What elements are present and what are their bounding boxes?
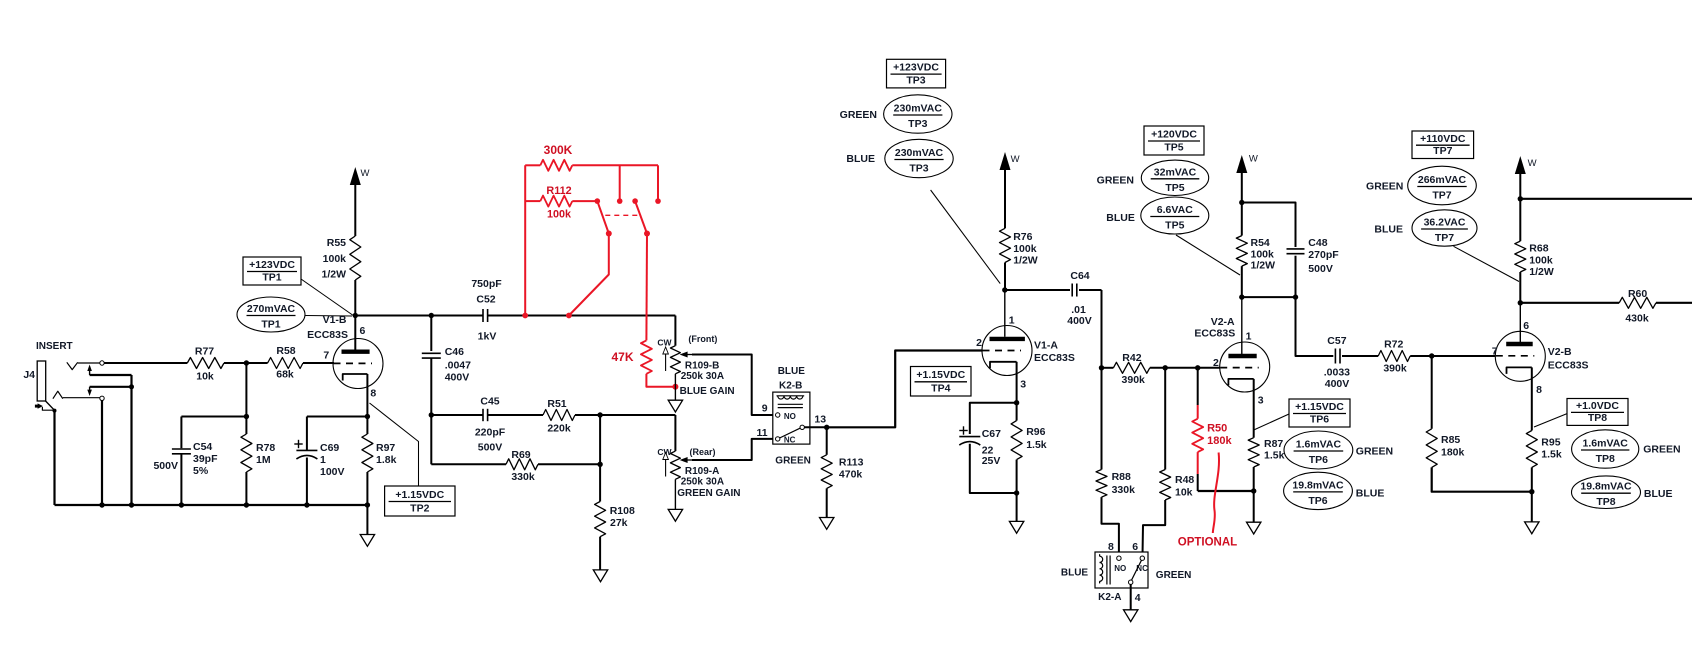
wire C46 down (430, 316, 432, 352)
svg-text:K2-A: K2-A (1098, 592, 1121, 603)
wire jack ring down (101, 400, 103, 505)
svg-text:W: W (1249, 154, 1258, 165)
svg-text:BLUE: BLUE (846, 153, 875, 165)
wire C57 to R72 (1342, 355, 1378, 357)
wire C64 to R42 node (1079, 290, 1102, 368)
wire R48 top (1164, 368, 1166, 470)
svg-text:C52: C52 (476, 294, 495, 306)
wire R72 to V2-B grid (1410, 355, 1495, 357)
svg-text:W: W (361, 168, 370, 179)
svg-text:V2-B: V2-B (1548, 346, 1572, 358)
capacitor C54 (153, 441, 218, 477)
svg-text:220k: 220k (547, 422, 571, 434)
test point ellipse TP8 BLUE (1572, 476, 1673, 509)
K2-A switch arm (1132, 560, 1142, 580)
svg-text:5%: 5% (193, 465, 209, 477)
V2-A pin 3 (1254, 379, 1264, 438)
svg-text:K2-B: K2-B (779, 380, 802, 391)
node C48/R54 junction (1239, 294, 1298, 299)
svg-text:68k: 68k (276, 369, 294, 381)
capacitor C64 (1067, 270, 1092, 327)
ground bus wire (55, 504, 368, 506)
svg-text:V2-A: V2-A (1211, 316, 1235, 328)
svg-text:TP7: TP7 (1435, 232, 1454, 244)
resistor R113 (821, 455, 863, 489)
resistor R76 (1000, 228, 1038, 266)
connector J4 (INSERT jack) (23, 341, 72, 401)
wire R95 bottom (1531, 467, 1533, 522)
V1-A cathode (990, 362, 1017, 369)
svg-text:C64: C64 (1070, 270, 1089, 282)
wire K2-B common out (804, 426, 826, 428)
svg-text:ECC83S: ECC83S (1194, 328, 1235, 340)
wire supply rail right top (1520, 198, 1692, 200)
svg-text:+110VDC: +110VDC (1420, 133, 1466, 145)
svg-text:7: 7 (1492, 346, 1498, 358)
K2-B NC contact (776, 437, 780, 441)
potentiometer R109-B (657, 334, 734, 397)
node C45 row left (429, 412, 434, 417)
svg-text:9: 9 (762, 402, 768, 414)
wire K2-A pin4 (1130, 584, 1132, 609)
test point box TP8 (1567, 399, 1628, 426)
svg-text:6.6VAC: 6.6VAC (1157, 204, 1193, 216)
svg-text:1/2W: 1/2W (1251, 260, 1276, 272)
test point ellipse TP7 GREEN (1366, 166, 1476, 205)
wire C48 branch (1242, 203, 1296, 248)
node R77/R58 junction (244, 360, 249, 365)
svg-text:1/2W: 1/2W (321, 269, 346, 281)
resistor R51 (543, 398, 575, 434)
resistor R60 (1619, 288, 1656, 324)
V2-B pin 7 label (1492, 346, 1498, 358)
wire jack sleeve down (53, 409, 57, 505)
test point box TP6 (1289, 399, 1350, 427)
node switch throw D (655, 198, 661, 204)
wire K2-B to V1-A grid (827, 351, 982, 428)
wire V2-A plate node to C57 (1296, 297, 1334, 356)
resistor R68 (1515, 241, 1554, 278)
svg-text:270mVAC: 270mVAC (247, 303, 296, 315)
resistor R87 (1248, 438, 1284, 467)
wire to C45 (431, 414, 482, 416)
wire R109-A wiper to K2-B pin11 (692, 439, 775, 460)
svg-text:390k: 390k (1122, 374, 1146, 386)
svg-text:13: 13 (814, 414, 826, 426)
svg-text:300K: 300K (544, 143, 573, 157)
svg-text:R58: R58 (276, 345, 295, 357)
svg-text:1.5k: 1.5k (1264, 450, 1285, 462)
svg-text:270pF: 270pF (1308, 249, 1339, 261)
wire R113 top (826, 427, 828, 455)
red wire 47K to pot bottom (646, 374, 675, 387)
svg-text:2: 2 (976, 337, 982, 349)
svg-text:TP5: TP5 (1165, 220, 1184, 232)
svg-text:32mVAC: 32mVAC (1154, 166, 1197, 178)
jack sleeve contact (35, 401, 55, 410)
resistor R72 (1378, 338, 1410, 374)
wire R96 bottom (1016, 460, 1018, 522)
svg-text:500V: 500V (153, 460, 178, 472)
svg-text:+123VDC: +123VDC (249, 259, 295, 271)
V1-B pin 8 label (370, 388, 376, 400)
resistor 300K (red) (525, 143, 658, 171)
resistor R54 (1236, 203, 1275, 272)
svg-text:230mVAC: 230mVAC (895, 147, 944, 159)
label OPTIONAL (red) (1178, 537, 1237, 549)
resistor R58 (268, 345, 303, 381)
resistor R77 (187, 346, 224, 383)
svg-text:R77: R77 (195, 346, 214, 358)
svg-text:230mVAC: 230mVAC (894, 103, 943, 115)
capacitor C45 (475, 395, 506, 453)
svg-text:V1-A: V1-A (1034, 340, 1058, 352)
svg-text:(Rear): (Rear) (690, 447, 716, 457)
V2-B cathode (1507, 367, 1532, 374)
node R96/C67 bottom (1014, 490, 1019, 495)
svg-text:.01: .01 (1071, 304, 1086, 316)
svg-text:+1.15VDC: +1.15VDC (395, 489, 444, 501)
svg-text:3: 3 (1020, 379, 1026, 391)
svg-text:8: 8 (370, 388, 376, 400)
capacitor C52 (471, 278, 502, 343)
tube V1-A ECC83S (982, 326, 1075, 376)
R109-A wiper (680, 457, 692, 463)
svg-text:R48: R48 (1175, 474, 1194, 486)
wire plate node to R60 (1520, 302, 1619, 304)
switch arm 1 (red) (597, 201, 609, 233)
svg-text:NO: NO (784, 412, 796, 421)
wire V1-B plate run (355, 315, 482, 317)
test point ellipse TP6 BLUE (1284, 472, 1385, 509)
svg-text:C45: C45 (480, 395, 499, 407)
test point box TP5 (1144, 126, 1204, 155)
svg-text:250k 30A: 250k 30A (681, 477, 724, 488)
svg-text:V1-B: V1-B (323, 314, 347, 326)
node switch pivot A (595, 198, 601, 204)
V1-B pin 6 (355, 316, 365, 350)
svg-text:GREEN GAIN: GREEN GAIN (677, 488, 740, 499)
svg-text:R87: R87 (1264, 438, 1283, 450)
svg-text:100k: 100k (323, 253, 347, 265)
node C46 junction (429, 313, 434, 318)
node R95/R85 junction (1529, 489, 1534, 494)
resistor R78 (241, 434, 276, 472)
svg-text:GREEN: GREEN (1097, 175, 1134, 187)
node R85 tap (1429, 353, 1434, 358)
resistor R55 (321, 236, 360, 281)
leader TP1 box (301, 279, 354, 316)
svg-text:1.5k: 1.5k (1026, 439, 1047, 451)
jack ring terminal circle (100, 396, 104, 400)
wire C48 bottom (1295, 256, 1297, 297)
svg-text:TP2: TP2 (410, 503, 429, 515)
R109-A CW arrow (663, 453, 669, 477)
svg-text:TP4: TP4 (931, 383, 950, 395)
wire R113 to ground (826, 488, 828, 517)
red wire left vertical (524, 165, 526, 315)
wire jack tip-switch bus (90, 375, 132, 387)
wire R108 top (599, 415, 601, 502)
K2-B NO contact (776, 413, 780, 417)
wire R48 to K2-A pin6 (1143, 500, 1166, 556)
wire R69 branch down (431, 415, 506, 464)
power arrow W (V2-B) (1515, 156, 1537, 241)
tube V2-B ECC83S (1495, 331, 1588, 381)
svg-text:ECC83S: ECC83S (1034, 352, 1075, 364)
leader TP8 (1534, 414, 1567, 427)
svg-text:R109-B: R109-B (685, 361, 719, 372)
svg-text:R55: R55 (327, 237, 346, 249)
wire R60 right (1656, 302, 1692, 304)
wire R85 top (1431, 356, 1433, 429)
power arrow W (V1-A) (1000, 152, 1020, 228)
V2-B pin 6 (1520, 303, 1529, 342)
svg-text:400V: 400V (1325, 378, 1350, 390)
svg-text:BLUE: BLUE (1061, 568, 1089, 579)
test point ellipse TP7 BLUE (1374, 210, 1477, 246)
svg-text:100k: 100k (1529, 255, 1553, 267)
node switch pivot C (632, 198, 638, 204)
wire R76 to node (1004, 263, 1006, 291)
wire R77-R58 (224, 362, 268, 364)
wire R109-B bottom (674, 374, 676, 400)
wire C45 to R51 (488, 414, 543, 416)
wire R108 to ground (599, 537, 601, 570)
relay K2-B (756, 366, 826, 466)
leader TP3 (931, 190, 1001, 284)
wire C46 to C45 row (430, 358, 432, 415)
wire C67 to bottom (970, 444, 1017, 493)
node C54 wire junction (244, 414, 249, 419)
V1-B cathode (343, 374, 368, 381)
svg-text:INSERT: INSERT (36, 341, 73, 352)
svg-text:R88: R88 (1112, 471, 1131, 483)
node switch arm1 end (606, 231, 612, 237)
wire R50 top (black) (1197, 368, 1199, 405)
svg-text:R96: R96 (1026, 426, 1045, 438)
node red tap on plate wire (522, 313, 528, 319)
svg-text:GREEN: GREEN (1643, 443, 1680, 455)
svg-text:C69: C69 (320, 442, 339, 454)
capacitor C69 (294, 440, 344, 478)
svg-text:R50: R50 (1207, 423, 1227, 435)
node R69/R108 (597, 462, 602, 467)
svg-text:10k: 10k (1175, 487, 1193, 499)
K2-A NO contact (1117, 556, 1121, 560)
svg-text:19.8mVAC: 19.8mVAC (1292, 479, 1344, 491)
test point ellipse TP5 GREEN (1097, 160, 1209, 195)
K2-A common contact (1129, 580, 1133, 584)
node V2-B supply tap (1518, 196, 1523, 201)
svg-text:100V: 100V (320, 466, 345, 478)
svg-text:1.6mVAC: 1.6mVAC (1296, 439, 1342, 451)
node R42 left (1099, 365, 1104, 370)
svg-text:ECC83S: ECC83S (307, 329, 348, 341)
wire R109-A top (674, 415, 676, 451)
wire R69 to junction (538, 463, 600, 465)
svg-text:500V: 500V (1308, 263, 1333, 275)
resistor R48 (1160, 470, 1195, 501)
red wire arm1 to plate wire (569, 234, 609, 316)
test point ellipse TP6 GREEN (1284, 431, 1393, 469)
node switch throw B (617, 198, 623, 204)
svg-text:R109-A: R109-A (685, 466, 719, 477)
svg-text:8: 8 (1536, 384, 1542, 396)
K2-B switch arm (780, 428, 801, 438)
svg-text:7: 7 (323, 350, 329, 362)
red wire arm2 down (645, 234, 648, 341)
svg-text:750pF: 750pF (471, 278, 502, 290)
svg-text:TP5: TP5 (1164, 142, 1183, 154)
svg-text:8: 8 (1108, 541, 1114, 553)
node cathode junction (365, 414, 370, 419)
svg-text:W: W (1011, 154, 1020, 165)
test point ellipse TP5 BLUE (1106, 197, 1208, 234)
svg-text:TP6: TP6 (1308, 495, 1327, 507)
potentiometer R109-A (657, 447, 740, 499)
wire R78 to bus (245, 472, 247, 505)
capacitor C67 (959, 426, 1001, 467)
wire R88 top (1101, 368, 1103, 470)
svg-text:19.8mVAC: 19.8mVAC (1580, 481, 1632, 493)
wire C54 to R78 (181, 417, 246, 449)
wire C69 top (307, 417, 368, 451)
wire R85 bottom (1432, 467, 1532, 491)
svg-text:C48: C48 (1308, 237, 1327, 249)
svg-text:+1.15VDC: +1.15VDC (916, 369, 965, 381)
svg-text:180k: 180k (1441, 447, 1465, 459)
resistor R88 (1096, 470, 1135, 498)
svg-text:10k: 10k (196, 371, 214, 383)
power arrow W (V1-B) (350, 167, 370, 236)
svg-text:BLUE: BLUE (1106, 212, 1135, 224)
svg-text:+1.0VDC: +1.0VDC (1576, 400, 1619, 412)
wire R88 to K2-A pin8 (1102, 497, 1119, 556)
svg-text:C67: C67 (982, 428, 1001, 440)
node red at pot bottom (672, 384, 678, 390)
svg-text:NO: NO (1114, 564, 1126, 573)
svg-text:W: W (1528, 158, 1537, 169)
wire node to C64 (1005, 289, 1070, 291)
wire R42 to V2-A grid (1150, 367, 1220, 369)
leader TP2 (370, 403, 419, 486)
node R54 top (1239, 200, 1244, 205)
resistor R95 (1526, 431, 1562, 468)
V1-A pin 3 (1017, 362, 1027, 403)
svg-text:100k: 100k (547, 209, 572, 221)
jack tip terminal circle (100, 361, 104, 365)
test point ellipse TP8 GREEN (1572, 430, 1681, 468)
svg-text:R69: R69 (511, 449, 530, 461)
ground below R87 (1247, 522, 1261, 534)
svg-text:6: 6 (1132, 541, 1138, 553)
svg-text:TP8: TP8 (1596, 496, 1615, 508)
ground below V1-B (360, 535, 374, 547)
svg-text:R76: R76 (1013, 231, 1032, 243)
test point box TP3 (887, 59, 946, 88)
node jack switch junction (129, 384, 134, 389)
svg-text:R72: R72 (1384, 338, 1403, 350)
svg-text:250k 30A: 250k 30A (681, 371, 724, 382)
wire C54 to bus (180, 454, 182, 505)
svg-text:GREEN: GREEN (840, 109, 877, 121)
node bus junctions (99, 502, 370, 507)
svg-text:39pF: 39pF (193, 453, 218, 465)
ground below R109-B (668, 400, 682, 412)
svg-text:TP7: TP7 (1432, 190, 1451, 202)
svg-text:TP1: TP1 (262, 272, 281, 284)
wire R109-B wiper to K2-B pin9 (692, 355, 775, 416)
test point box TP7 (1412, 131, 1474, 159)
svg-text:100k: 100k (1013, 243, 1037, 255)
power arrow W (V2-A) (1236, 154, 1258, 203)
svg-text:CW: CW (657, 337, 672, 347)
resistor R108 (595, 502, 635, 537)
svg-text:GREEN: GREEN (1156, 570, 1192, 581)
svg-text:1kV: 1kV (478, 331, 497, 343)
V1-A pin 2 label (976, 337, 982, 349)
svg-text:R108: R108 (610, 505, 635, 517)
svg-text:180k: 180k (1207, 435, 1232, 447)
svg-text:(Front): (Front) (688, 334, 717, 344)
svg-text:1/2W: 1/2W (1013, 255, 1038, 267)
wire R55 to plate node (354, 280, 356, 316)
red wire throw B stub (619, 165, 621, 201)
svg-text:TP6: TP6 (1309, 454, 1328, 466)
svg-text:+123VDC: +123VDC (893, 62, 939, 74)
svg-text:BLUE: BLUE (778, 366, 806, 377)
svg-text:400V: 400V (445, 372, 470, 384)
jack tip switch contact (87, 365, 92, 376)
svg-text:3: 3 (1258, 395, 1264, 407)
node R48 tap (1163, 365, 1168, 370)
resistor 47K (red) (611, 340, 651, 373)
V2-A pin 1 (1242, 297, 1252, 354)
svg-text:C57: C57 (1327, 335, 1346, 347)
node pin13 (824, 425, 829, 430)
svg-text:47K: 47K (611, 350, 633, 364)
leader TP6 (1254, 414, 1289, 430)
svg-text:25V: 25V (982, 455, 1001, 467)
wire R51 to pot row (575, 414, 675, 416)
svg-text:1M: 1M (256, 454, 271, 466)
svg-text:R42: R42 (1122, 352, 1141, 364)
svg-text:TP8: TP8 (1596, 453, 1615, 465)
svg-text:OPTIONAL: OPTIONAL (1178, 537, 1237, 549)
svg-text:GREEN: GREEN (775, 455, 811, 466)
capacitor C46 (422, 346, 471, 384)
resistor R96 (1011, 421, 1047, 460)
ground below R113 (820, 518, 834, 530)
capacitor C57 (1324, 335, 1350, 390)
svg-text:NC: NC (784, 436, 796, 445)
wire jack send to R77 (104, 362, 188, 364)
svg-text:TP6: TP6 (1310, 414, 1329, 426)
resistor R85 (1426, 429, 1464, 468)
svg-text:R95: R95 (1541, 437, 1560, 449)
wire bus to ground (366, 505, 368, 535)
R109-B CW arrow (663, 347, 669, 371)
svg-text:220pF: 220pF (475, 427, 506, 439)
wire R97 to bus (366, 472, 368, 505)
ground below K2-A (1124, 610, 1138, 622)
svg-text:TP8: TP8 (1588, 412, 1607, 424)
svg-text:R54: R54 (1251, 237, 1270, 249)
svg-text:C54: C54 (193, 441, 212, 453)
node red tap 2 (566, 313, 572, 319)
tube V1-B ECC83S (307, 314, 383, 389)
